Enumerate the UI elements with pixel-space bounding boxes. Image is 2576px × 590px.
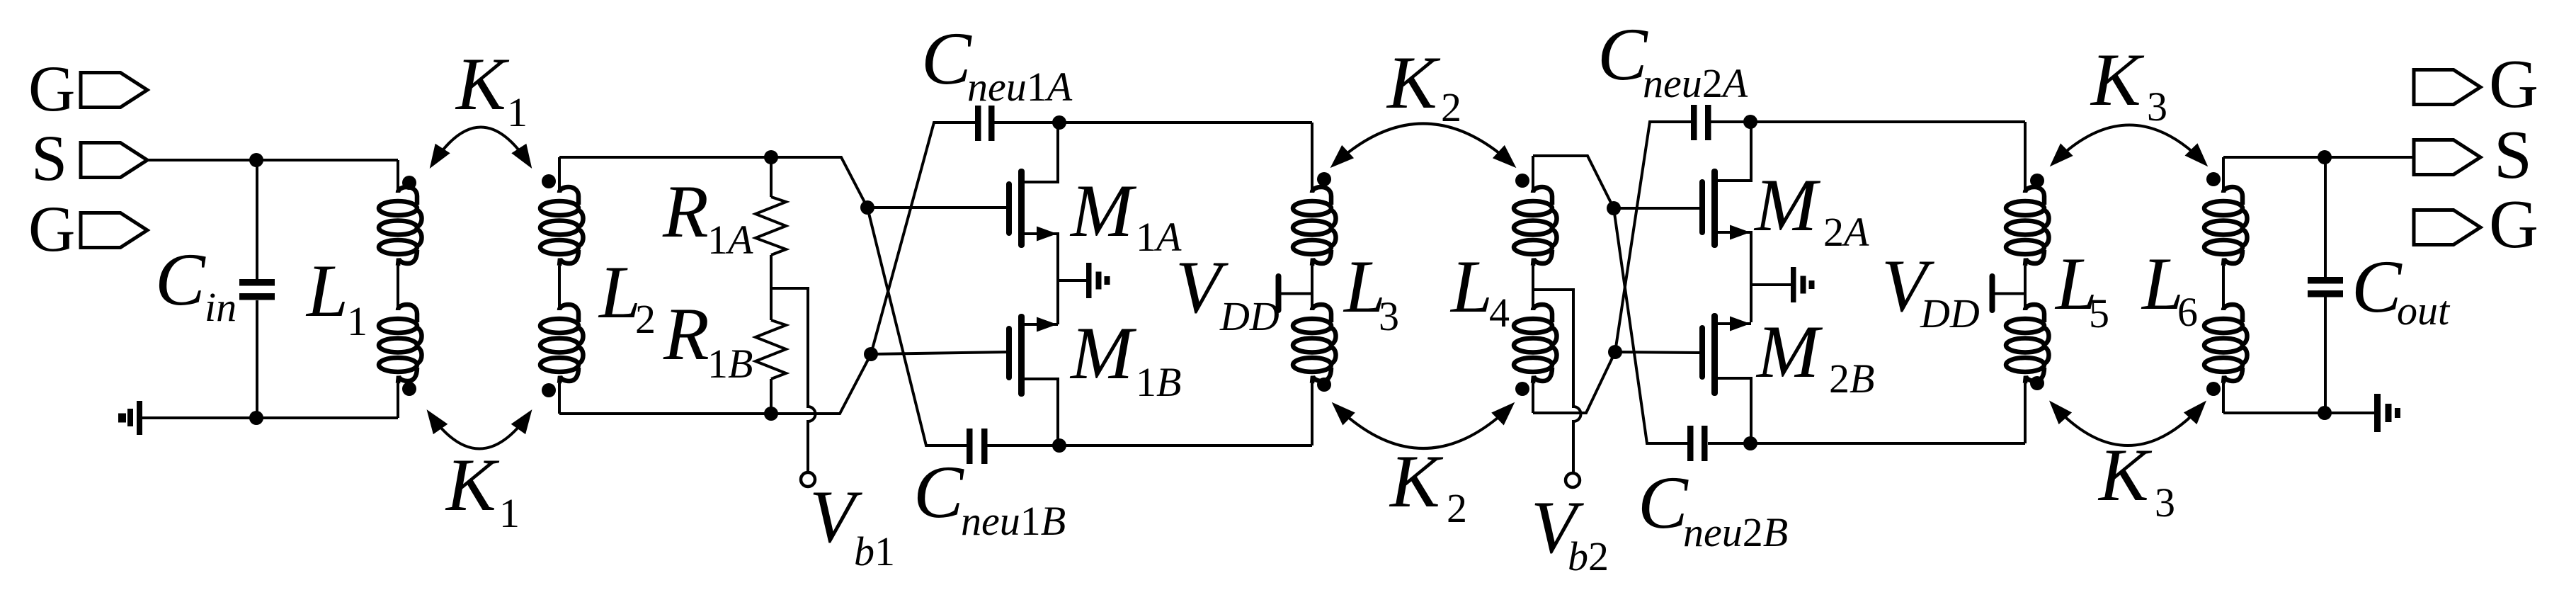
svg-text:K: K [455,42,510,125]
wire cross gateB to Cneu1A [871,123,975,354]
wire gate M2A [1614,207,1699,210]
wire input bottom rail [142,416,398,419]
wire bias tap R1 [771,288,816,472]
svg-text:C: C [2352,245,2403,328]
svg-text:K: K [1389,440,1444,523]
node R1B bottom [764,407,778,421]
node gate B stage1 [864,347,878,361]
coupling K2 top [1333,41,1513,165]
node R1A top [764,150,778,164]
wire stage2 top rail [1711,120,2025,123]
svg-text:C: C [1638,461,1689,544]
svg-text:DD: DD [1920,290,1980,336]
transistor M1A [1006,123,1182,324]
coupling K2 bottom [1335,405,1512,531]
inductor L1 [305,160,422,418]
svg-text:M: M [1069,312,1137,395]
svg-text:neu2B: neu2B [1683,509,1788,555]
svg-text:L: L [1449,245,1493,328]
svg-text:R: R [662,170,709,253]
svg-text:1: 1 [499,490,520,536]
inductor L4 [1449,156,1557,413]
svg-text:neu1A: neu1A [967,64,1073,110]
svg-text:G: G [2489,46,2538,122]
svg-text:3: 3 [2155,480,2175,526]
svg-text:neu1B: neu1B [961,498,1066,544]
svg-text:2: 2 [1441,84,1461,130]
wire stage1 top rail [994,121,1312,124]
svg-text:S: S [31,122,67,194]
wire stage2 bottom rail [1708,442,2025,445]
port G output top [2414,46,2538,122]
inductor L2 [540,157,656,414]
port S input [31,122,147,194]
svg-text:1A: 1A [707,217,753,263]
svg-text:K: K [2090,38,2145,121]
inductor L6 [2141,157,2247,413]
wire L4 bottom rail [1533,352,1615,413]
svg-text:M: M [1755,310,1823,393]
node Cout top [2318,150,2332,164]
wire gate M1A [867,206,1006,209]
wire stage1 bottom rail [987,444,1312,447]
capacitor Cin [155,160,275,418]
ground output [2374,394,2400,432]
supply VDD stage1 [1175,246,1312,339]
svg-text:out: out [2397,288,2451,334]
svg-text:b2: b2 [1568,533,1609,579]
svg-text:S: S [2494,117,2532,193]
coupling K3 bottom [2052,404,2204,526]
transistor M2B [1699,310,1874,443]
transistor M2A [1699,122,1869,322]
svg-text:L: L [305,249,348,332]
svg-text:1: 1 [507,89,528,135]
svg-text:1B: 1B [707,341,753,387]
svg-text:K: K [2097,433,2153,516]
wire cross gateA to Cneu1B [867,208,967,446]
node Cout bottom [2318,406,2332,420]
svg-text:G: G [28,52,75,125]
wire output bottom rail [2223,412,2374,414]
svg-text:b1: b1 [854,528,895,574]
svg-text:in: in [205,284,236,330]
wire L2 bottom rail [559,354,871,414]
svg-text:2: 2 [635,296,656,342]
svg-text:6: 6 [2177,289,2198,335]
node drain M1B [1052,438,1066,453]
node gate A stage1 [860,200,874,215]
wire output top rail [2223,156,2415,159]
ground source node stage1 [1058,263,1110,298]
wire L2 top rail [559,157,867,208]
node Cin bottom [249,411,263,425]
ground source node stage2 [1751,267,1815,302]
transistor M1B [1006,312,1181,446]
svg-text:K: K [1386,41,1441,124]
terminal Vb2 [1531,473,1609,579]
svg-text:C: C [155,238,206,321]
coupling K1 top [432,42,530,165]
resistor R1A [662,157,786,320]
node drain M2A [1743,115,1757,129]
wire input top [147,159,398,161]
svg-text:R: R [663,293,709,375]
capacitor Cneu2B [1638,426,1788,555]
svg-text:5: 5 [2089,290,2109,336]
ground input [118,401,142,435]
svg-text:L: L [598,251,641,334]
resistor R1B [663,293,786,414]
svg-text:2A: 2A [1823,209,1869,255]
inductor L3 [1293,123,1399,446]
svg-text:G: G [28,193,75,265]
wire cross gateB to Cneu2A [1615,122,1691,352]
capacitor Cneu1B [913,429,1066,544]
svg-text:4: 4 [1489,290,1510,336]
node gate B stage2 [1608,345,1622,359]
capacitor Cout [2308,157,2451,413]
svg-text:G: G [2489,186,2538,262]
capacitor Cneu1A [921,17,1073,141]
svg-text:1: 1 [347,298,367,344]
wire gate M2B [1615,352,1699,353]
port G output bottom [2414,186,2538,262]
port G input top [28,52,147,125]
coupling K1 bottom [429,413,530,536]
node input [249,153,263,167]
node drain M2B [1743,436,1757,450]
svg-text:3: 3 [1379,293,1399,339]
wire bias tap Vb2 [1533,290,1581,473]
wire L4 top rail [1533,156,1614,208]
node drain M1A [1052,115,1066,130]
svg-text:DD: DD [1219,293,1280,339]
wire cross gateA to Cneu2B [1614,208,1687,443]
port G input bottom [28,193,147,265]
svg-text:3: 3 [2147,84,2167,130]
svg-text:2B: 2B [1829,356,1874,402]
svg-text:C: C [913,450,964,533]
svg-text:2: 2 [1447,485,1467,531]
svg-text:C: C [921,17,972,100]
svg-text:K: K [445,443,500,526]
inductor L5 [2006,122,2109,443]
svg-text:M: M [1069,169,1137,252]
svg-text:C: C [1597,13,1648,96]
capacitor Cneu2A [1597,13,1748,140]
wire gate M1B [871,352,1006,354]
svg-text:M: M [1753,164,1821,246]
svg-text:1B: 1B [1136,359,1181,405]
coupling K3 top [2053,38,2205,164]
svg-text:neu2A: neu2A [1643,60,1748,106]
port S output [2414,117,2532,193]
terminal Vb1 [801,472,895,574]
node gate A stage2 [1607,201,1621,215]
supply VDD stage2 [1881,244,2025,336]
